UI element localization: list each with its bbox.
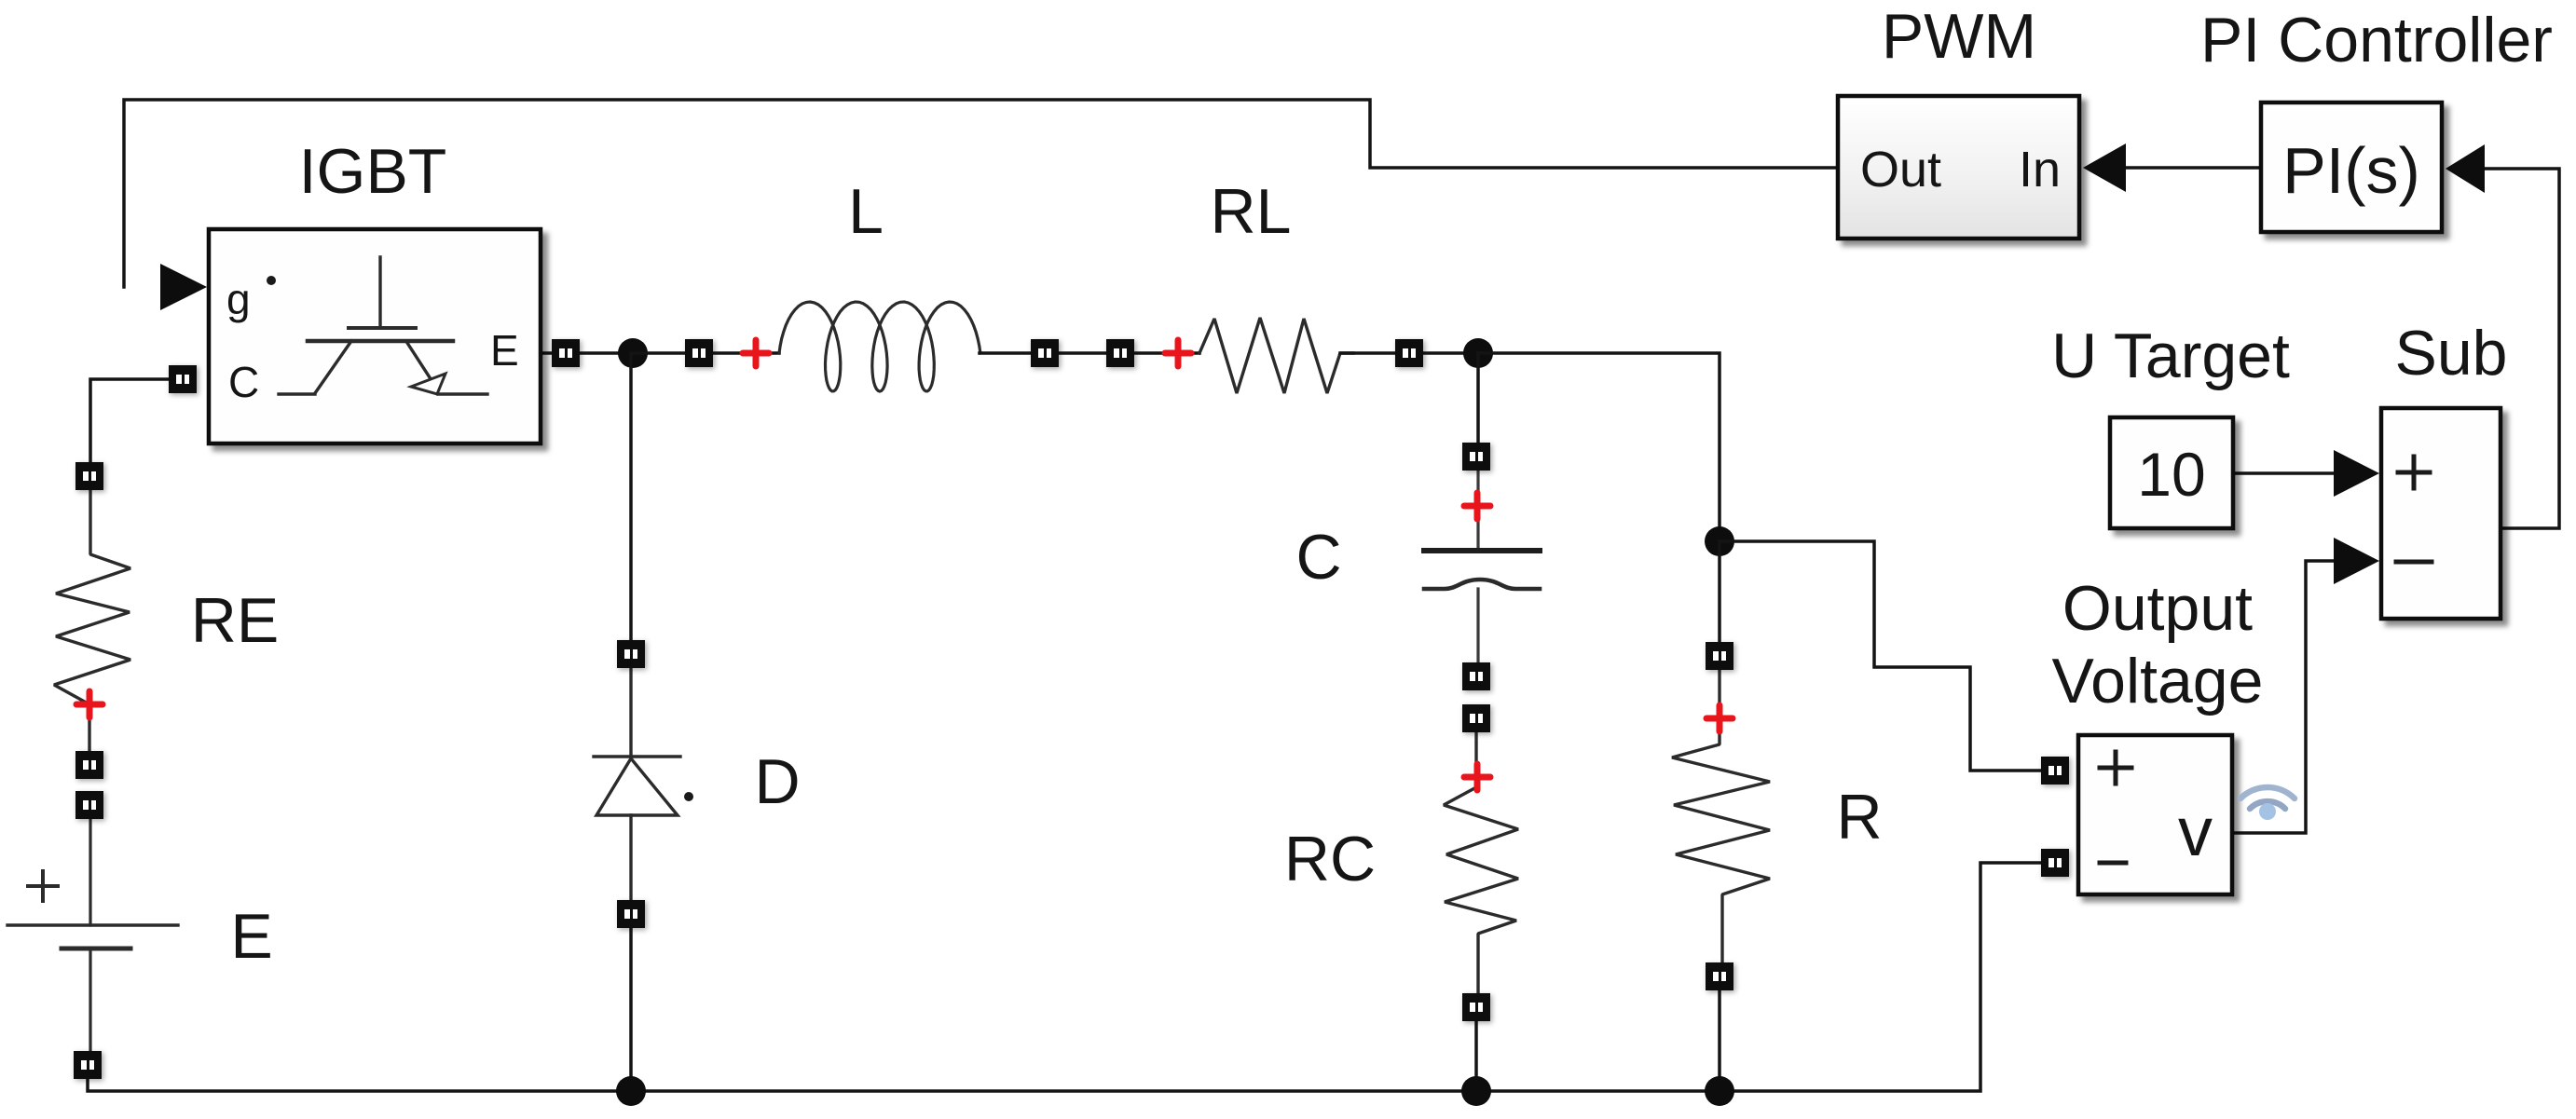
svg-text:E: E (490, 326, 519, 375)
wire: node C to Output Voltage + input (1720, 541, 2041, 771)
svg-text:v: v (2178, 793, 2213, 870)
wire: IGBT C terminal to RE (90, 379, 171, 462)
port: battery top (75, 791, 103, 819)
wire: U Target 10 to Sub plus (2233, 471, 2334, 475)
resistor R lead + zigzag (1672, 670, 1770, 962)
svg-text:10: 10 (2137, 440, 2205, 509)
port: R top (1706, 642, 1733, 670)
wire: Sub output to PI Controller input (2485, 169, 2559, 528)
ground bus junction at diode (616, 1076, 646, 1106)
svg-text:U Target: U Target (2051, 321, 2290, 391)
Sub block (2381, 408, 2501, 619)
svg-text:RE: RE (191, 585, 279, 656)
svg-text:IGBT: IGBT (299, 136, 447, 207)
arrowhead into Sub plus input (2334, 450, 2379, 497)
svg-text:R: R (1836, 782, 1882, 853)
resistor RL zigzag (1199, 318, 1353, 393)
battery E symbol (7, 819, 178, 1051)
U Target block (2110, 417, 2233, 528)
svg-text:L: L (848, 176, 884, 247)
svg-text:RC: RC (1284, 824, 1376, 894)
capacitor C lead bottom (1476, 589, 1479, 664)
PI Controller block (2261, 102, 2442, 232)
wire: diode bottom to ground bus (629, 928, 633, 1091)
diode D symbol (594, 668, 680, 900)
polarity + at RE (76, 691, 103, 717)
port: IGBT E (552, 339, 580, 367)
svg-text:PI(s): PI(s) (2282, 134, 2420, 207)
resistor RC lead + zigzag (1444, 732, 1518, 993)
wire: battery bottom to ground bus (88, 863, 2041, 1091)
arrowhead into Sub minus input (2334, 538, 2379, 584)
Output Voltage sensor block (2078, 735, 2232, 894)
svg-text:In: In (2019, 142, 2061, 198)
wire: Output Voltage v to Sub minus (2232, 561, 2334, 833)
capacitor C lead top (1476, 470, 1479, 551)
ground bus junction at R (1705, 1076, 1734, 1106)
IGBT block (209, 229, 541, 444)
port: RE top (75, 462, 103, 490)
port: sensor minus (2041, 849, 2069, 877)
port: RC top (1462, 704, 1490, 732)
port: L left (685, 339, 713, 367)
port: capacitor C bottom (1462, 662, 1490, 690)
PWM block (1838, 96, 2079, 239)
wire: L to RL (980, 351, 1199, 355)
wire: RL to node B (1340, 351, 1478, 355)
svg-text:Out: Out (1860, 142, 1941, 198)
polarity + at RC (1464, 764, 1490, 790)
svg-text:D: D (754, 746, 800, 817)
svg-text:C: C (228, 358, 259, 406)
wire: IGBT E to node A (541, 351, 633, 355)
port: diode top (617, 640, 645, 668)
wire: node B down to capacitor C (1476, 353, 1480, 444)
node C junction (R branch / sensor tap) (1705, 526, 1734, 556)
node A junction (IGBT E / diode / L) (618, 338, 648, 368)
wire: diode branch vertical (629, 353, 633, 654)
wire: R bottom to ground bus (1718, 990, 1721, 1091)
port: RE bottom (75, 751, 103, 779)
port: L right (1031, 339, 1059, 367)
port: R bottom (1706, 962, 1733, 990)
svg-text:C: C (1295, 522, 1341, 593)
wire: node A to inductor L (633, 351, 779, 355)
svg-text:PI Controller: PI Controller (2200, 5, 2553, 75)
diode small dot (684, 792, 693, 801)
polarity + at R (1706, 705, 1733, 731)
svg-text:PWM: PWM (1882, 1, 2036, 72)
capacitor C plates (1424, 551, 1540, 589)
port: capacitor C top (1462, 443, 1490, 471)
gate input arrowhead into IGBT (160, 264, 207, 310)
polarity + at C (1464, 493, 1490, 519)
port: battery bottom (74, 1051, 102, 1079)
svg-text:Voltage: Voltage (2052, 646, 2264, 716)
svg-text:Output: Output (2062, 573, 2253, 644)
wire: PWM Out feedback to IGBT gate (top) (124, 100, 1838, 287)
wire: node B to R branch top (1478, 353, 1720, 541)
wire: node C down to resistor R (1718, 541, 1721, 643)
inductor L coil (779, 302, 980, 391)
port: sensor plus (2041, 757, 2069, 785)
ground bus junction at RC (1461, 1076, 1491, 1106)
svg-text:E: E (230, 901, 272, 972)
port: RL left (1106, 339, 1134, 367)
arrowhead into PWM In (2083, 143, 2126, 192)
resistor RE lead + zigzag (54, 490, 130, 751)
port: IGBT C (169, 365, 197, 393)
port: RC bottom (1462, 993, 1490, 1021)
wire: PI Controller output to PWM In (2126, 166, 2261, 170)
node B junction (RL / C branch / R branch) (1463, 338, 1493, 368)
polarity + at L (743, 340, 769, 366)
arrowhead into PI Controller input (2446, 144, 2485, 193)
port: RL right (1395, 339, 1423, 367)
wire: RC bottom to ground bus (1474, 1021, 1478, 1091)
wireless indicator icon (2240, 787, 2295, 820)
polarity + at RL (1165, 340, 1191, 366)
svg-text:g: g (226, 275, 251, 323)
svg-text:RL: RL (1211, 176, 1292, 247)
svg-text:Sub: Sub (2395, 318, 2508, 389)
port: diode bottom (617, 900, 645, 928)
